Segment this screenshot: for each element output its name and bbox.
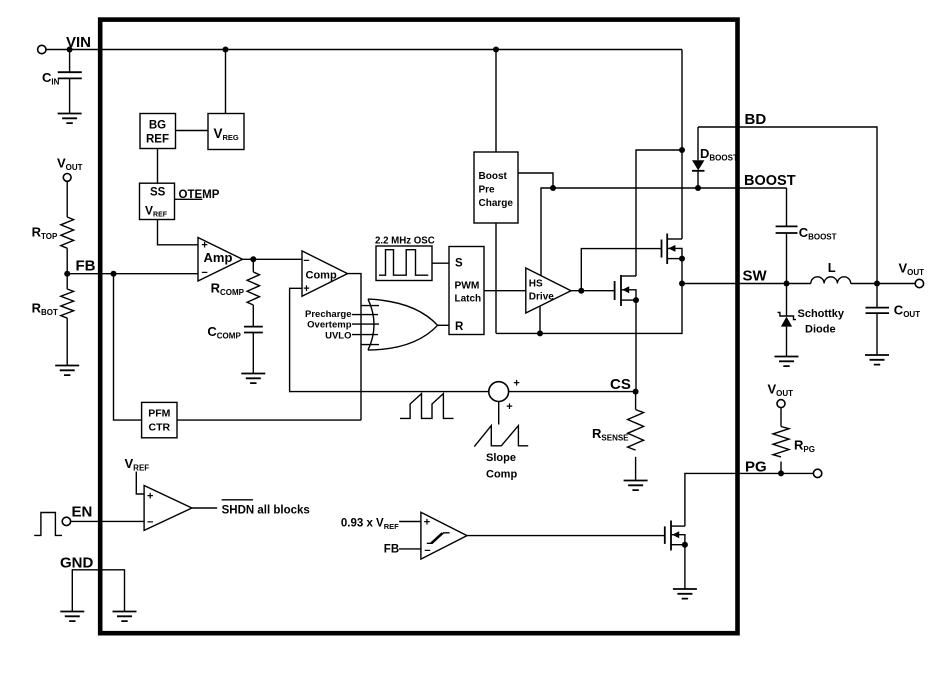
capacitor CBOOST (776, 226, 798, 233)
svg-text:RBOT: RBOT (32, 301, 58, 318)
svg-text:OTEMP: OTEMP (179, 189, 220, 201)
wire VIN rail drop to power FETs (681, 50, 683, 240)
wire HS output up to top FET gate (581, 249, 661, 291)
svg-text:SW: SW (743, 268, 768, 285)
svg-text:VREG: VREG (214, 126, 239, 142)
transistor Q1 (high-side switch) (661, 240, 663, 258)
wire CCOMP to ground (252, 333, 254, 374)
wire FB to RBOT (66, 274, 68, 289)
svg-text:−: − (147, 516, 153, 528)
inductor L (811, 277, 851, 284)
svg-text:2.2 MHz OSC: 2.2 MHz OSC (375, 236, 435, 247)
svg-text:VREF: VREF (145, 203, 168, 218)
wire GND pin (72, 570, 124, 612)
wire VIN rail (46, 49, 682, 51)
svg-text:R: R (455, 321, 464, 333)
wire BOOST to CBOOST (786, 188, 788, 226)
svg-text:SS: SS (150, 187, 166, 199)
wire SS to Amp + input (158, 220, 199, 245)
node Boost Pre Charge branch (493, 47, 499, 53)
VOUT PG pullup terminal (777, 400, 785, 408)
net label SHDN all blocks (222, 499, 253, 501)
ground GND external (60, 612, 84, 622)
block U-Boost-Pre-Charge (474, 152, 518, 223)
wire VIN to VREG (225, 50, 227, 114)
wire BGREF to VREG (176, 130, 209, 132)
PG terminal (813, 469, 821, 477)
svg-text:COUT: COUT (894, 303, 920, 320)
svg-text:CIN: CIN (42, 70, 60, 87)
node CS (633, 389, 639, 395)
wire BD line (698, 127, 877, 284)
wire to RCOMP (252, 259, 254, 272)
svg-text:REF: REF (146, 134, 169, 146)
svg-text:+: + (201, 240, 207, 252)
svg-text:Comp: Comp (486, 469, 517, 481)
svg-text:+: + (303, 283, 309, 295)
svg-text:EN: EN (72, 504, 93, 521)
svg-text:PFM: PFM (148, 408, 170, 420)
node Q2 source (633, 297, 639, 303)
wire summer bottom input (498, 402, 500, 425)
comparator U-PG (421, 512, 467, 559)
node HS drive output (578, 288, 584, 294)
svg-text:−: − (201, 267, 207, 279)
svg-text:FB: FB (384, 544, 399, 556)
svg-text:FB: FB (76, 258, 96, 275)
node L/COUT (874, 281, 880, 287)
resistor RSENSE (635, 392, 637, 410)
node VIN rail / precharge tap (679, 147, 685, 153)
wire OR top input (361, 305, 379, 307)
diode DBOOST (697, 127, 699, 160)
wire FB line into chip to Amp - input (67, 273, 198, 275)
capacitor CIN (58, 72, 82, 78)
node CBOOST/SW (784, 281, 790, 287)
wire Boost Pre Charge to BOOST node (518, 173, 553, 188)
node Q1 source (679, 256, 685, 262)
svg-text:+: + (506, 401, 512, 413)
waveform slope comp ramp (474, 426, 528, 447)
ground below CCOMP (241, 374, 265, 384)
op-amp Amp (error amplifier) (198, 238, 243, 282)
wire EN comparator output (192, 507, 217, 509)
svg-text:−: − (303, 255, 309, 267)
node VREG branch (223, 47, 229, 53)
svg-text:L: L (828, 260, 836, 275)
transistor Q2 (boost precharge switch) (614, 281, 616, 300)
wire OR bottom input (361, 344, 379, 346)
EN terminal (62, 517, 70, 525)
svg-text:PWM: PWM (455, 281, 480, 292)
svg-text:CCOMP: CCOMP (207, 324, 241, 341)
wire HS Drive output (571, 290, 615, 292)
node VIN/CIN junction (67, 47, 73, 53)
svg-text:Schottky: Schottky (798, 308, 845, 320)
svg-text:Boost: Boost (479, 171, 508, 182)
block U-PFM-CTR (142, 402, 177, 437)
svg-text:VREF: VREF (125, 456, 150, 473)
svg-text:RSENSE: RSENSE (592, 426, 629, 443)
wire Comp output down (348, 274, 362, 421)
transistor Q3 (PG open-drain) (664, 526, 666, 544)
block U-VREG (208, 114, 244, 150)
wire BOOST rail (541, 188, 787, 276)
svg-text:UVLO: UVLO (325, 330, 351, 341)
block U-SS/VREF (140, 183, 175, 219)
gate U-OR (reset OR gate) (368, 299, 438, 350)
wire Q1 source to SW (681, 259, 683, 284)
wire PFM CTR to Comp output line (177, 419, 361, 421)
svg-text:0.93 x VREF: 0.93 x VREF (341, 518, 399, 531)
wire RTOP to FB node (66, 248, 68, 274)
wire RCOMP to CCOMP (252, 305, 254, 327)
wire Boost Pre Charge bottom rail (495, 223, 497, 333)
svg-text:Amp: Amp (204, 250, 233, 265)
svg-text:HS: HS (529, 278, 543, 289)
block U-PWM-Latch (449, 247, 484, 335)
wire summer to CS node (509, 391, 636, 393)
svg-text:BOOST: BOOST (744, 173, 796, 189)
diode D1 Schottky (786, 284, 788, 317)
wire Q2 source to CS (635, 300, 637, 392)
wire SW line (682, 283, 811, 285)
wire RBOT to ground (66, 318, 68, 366)
svg-text:RTOP: RTOP (32, 225, 58, 242)
ground GND internal (113, 612, 137, 622)
node compensation branch (250, 256, 256, 262)
wire FB down to PFM CTR (114, 274, 142, 420)
wire UVLO input (352, 334, 378, 336)
svg-text:Overtemp: Overtemp (307, 320, 352, 331)
svg-text:DBOOST: DBOOST (700, 146, 738, 163)
wire Overtemp input (352, 323, 379, 325)
svg-text:Comp: Comp (306, 270, 337, 282)
ground below COUT (865, 355, 889, 365)
node PG/RPG (778, 470, 784, 476)
svg-text:Diode: Diode (805, 324, 836, 336)
ground below Q3 (673, 589, 697, 599)
wire Precharge input (352, 314, 378, 316)
resistor RCOMP (247, 272, 259, 305)
ground below Schottky (775, 357, 799, 367)
wire FB input (399, 548, 421, 550)
svg-text:Slope: Slope (486, 452, 516, 464)
capacitor COUT (876, 284, 878, 308)
comparator Comp (PWM comparator) (302, 251, 348, 296)
svg-text:Pre: Pre (479, 185, 496, 196)
node FB internal branch (111, 271, 117, 277)
wire EN to comparator (71, 520, 145, 522)
resistor RBOT (61, 289, 74, 318)
node FB pin (64, 271, 70, 277)
node Q3 source (682, 542, 688, 548)
EN pulse waveform (34, 513, 62, 536)
ground below RSENSE (624, 481, 648, 491)
svg-text:CS: CS (610, 376, 631, 393)
wire HS Drive bottom to rail (539, 306, 541, 333)
wire Comp + input from slope summer (290, 288, 489, 391)
svg-text:Drive: Drive (529, 292, 554, 303)
ground below RBOT (55, 366, 79, 376)
svg-text:CTR: CTR (149, 422, 171, 434)
svg-text:Charge: Charge (479, 198, 514, 209)
summer U-slope (slope comp summing node) (489, 382, 509, 402)
wire VREF to EN comparator (136, 472, 144, 495)
wire L to VOUT (851, 283, 916, 285)
resistor RPG (773, 427, 789, 457)
wire CIN branch (69, 50, 71, 73)
comparator U-EN (144, 486, 192, 531)
wire BGREF to SS (157, 149, 159, 184)
svg-text:+: + (424, 516, 430, 528)
svg-text:GND: GND (60, 555, 94, 572)
wire OSC to S input (432, 262, 449, 264)
svg-text:BG: BG (149, 120, 166, 132)
wire PG comparator output to Q3 gate (467, 535, 665, 537)
ground below CIN (58, 114, 82, 124)
VIN terminal (38, 45, 46, 53)
wire bottom gate rail (496, 284, 682, 334)
wire CIN to ground (69, 78, 71, 113)
svg-text:RPG: RPG (794, 438, 815, 455)
wire precharge tap (636, 150, 682, 276)
svg-text:+: + (513, 377, 519, 389)
wire OR output to R (438, 324, 449, 326)
svg-text:RCOMP: RCOMP (211, 281, 245, 298)
node DBOOST/BOOST (695, 185, 701, 191)
svg-text:−: − (424, 545, 430, 557)
svg-text:SHDN all blocks: SHDN all blocks (222, 505, 310, 517)
wire Q3 drain to PG pin (685, 473, 814, 526)
svg-text:VOUT: VOUT (768, 382, 794, 399)
node boost precharge/BOOST (550, 185, 556, 191)
svg-text:S: S (455, 258, 463, 270)
wire Q3 source to ground (684, 545, 686, 589)
wire VIN to Boost Pre Charge (495, 50, 497, 153)
capacitor CCOMP (244, 327, 263, 333)
wire Latch output to HS Drive (484, 290, 526, 292)
node SW internal (679, 281, 685, 287)
svg-text:PG: PG (745, 459, 767, 476)
IC boundary border (100, 20, 737, 634)
wire RPG to PG node (780, 462, 782, 474)
waveform CS ramp (400, 394, 454, 419)
wire 0.93 VREF input (399, 521, 421, 523)
svg-text:CBOOST: CBOOST (799, 225, 837, 242)
wire Amp output to Comp (243, 258, 303, 260)
wire VOUT to RTOP (66, 181, 68, 217)
wire VOUT to RPG (780, 408, 782, 427)
svg-text:BD: BD (745, 111, 767, 128)
VOUT right terminal (915, 279, 923, 287)
svg-text:Latch: Latch (455, 293, 482, 304)
VOUT left terminal (63, 174, 71, 182)
wire OTEMP stub (175, 198, 203, 200)
wire CBOOST to SW (786, 233, 788, 284)
driver U-HS-Drive (526, 268, 571, 313)
svg-text:Precharge: Precharge (305, 309, 351, 320)
svg-text:VOUT: VOUT (899, 260, 925, 277)
svg-text:VOUT: VOUT (57, 155, 83, 172)
resistor RTOP (61, 217, 74, 248)
svg-text:+: + (147, 490, 153, 502)
block U-BGREF (140, 114, 176, 149)
node HS drive bottom (537, 330, 543, 336)
